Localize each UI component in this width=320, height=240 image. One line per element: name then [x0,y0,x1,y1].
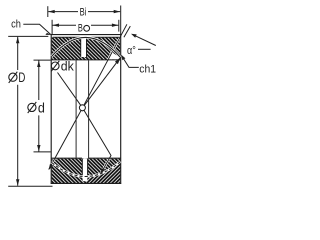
center pivot circle [79,105,85,111]
dk leader line [58,73,112,173]
sphere arc bottom (dashed) [52,162,121,177]
hatch bottom band right above arc [86,159,121,177]
svg-text:ch: ch [11,19,21,31]
outer ring OD top edge [51,34,122,36]
svg-text:B: B [78,23,83,35]
dk leader arrowhead [100,168,105,174]
outer ring top chamfer line [53,36,120,38]
svg-text:α°: α° [127,45,136,57]
svg-text:ch1: ch1 [139,63,156,75]
tilt axis line [49,24,127,169]
lube hole inner bottom (white channel) [82,158,87,181]
label dk [51,60,74,74]
sphere diameter arrowheads [115,57,121,64]
sphere diameter line [83,57,121,108]
tilt axis second stroke [124,26,130,37]
sphere arc top [52,37,121,57]
dim Bo [52,20,119,35]
angle alpha annotation [127,34,156,57]
bore groove line right [88,60,90,158]
svg-text:dk: dk [61,60,75,74]
hatch bottom band right below arc [86,162,121,184]
dim Bi [48,6,120,18]
right face extension line above [120,6,122,35]
dim D [8,36,52,186]
lube hole outer top (white channel) [81,37,87,57]
hatch bottom band left [52,159,87,183]
outer ring OD bottom edge [51,182,122,184]
svg-text:Bi: Bi [80,7,87,19]
svg-text:d: d [38,101,45,116]
hatch top band (outer and inner ring section) [52,38,121,60]
bore bottom edge [51,157,121,159]
bore groove line left [75,60,77,158]
bore top edge [51,59,121,61]
wire casings for annotation lines crossing hatch [49,24,127,172]
label ch [11,19,51,35]
chamfer notch top-right (white area below arc) [110,51,121,59]
left end face [50,34,52,184]
svg-text:D: D [18,70,25,85]
dim d [28,60,51,152]
label ch1 [121,55,156,76]
right end face [120,34,122,184]
